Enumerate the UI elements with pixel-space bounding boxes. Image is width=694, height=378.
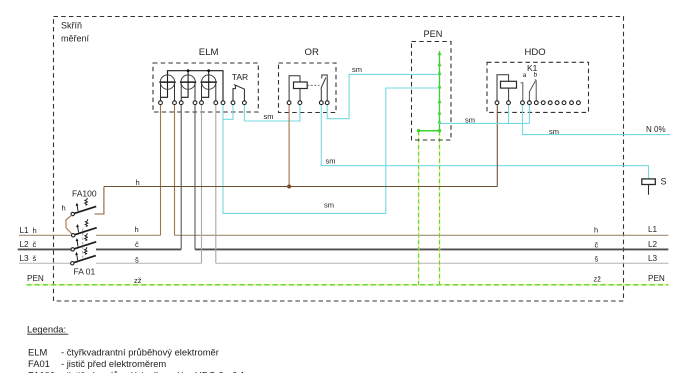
svg-text:L1: L1 — [20, 226, 30, 235]
ELM measuring element 1 — [159, 75, 175, 101]
svg-text:sm: sm — [465, 115, 475, 124]
breaker FA100 — [62, 187, 104, 234]
left wire color labels h c s — [33, 226, 37, 263]
wire OR t4 sm to PEN bus — [327, 74, 438, 118]
OR contact — [321, 75, 327, 101]
svg-text:FA01: FA01 — [28, 358, 50, 369]
svg-text:h: h — [33, 226, 37, 235]
cabinet frame Skrin mereni — [54, 17, 624, 302]
svg-text:Legenda:: Legenda: — [27, 324, 66, 335]
breaker FA01 pole 2 — [71, 233, 96, 251]
svg-text:h: h — [135, 225, 139, 234]
svg-text:sm: sm — [549, 127, 559, 136]
HDO relay K1 labels — [523, 63, 538, 79]
OR mechanical link — [307, 84, 319, 86]
power line L2 left segment — [18, 248, 71, 250]
HDO contact K1 — [521, 80, 537, 101]
svg-text:h: h — [136, 178, 140, 187]
OR relay coil — [289, 76, 307, 101]
FA100 input wire — [66, 215, 72, 234]
power line L3 left segment — [19, 262, 71, 264]
PEN riser wire 2 green-yellow dashed — [439, 131, 441, 284]
power line L2 right segment — [195, 248, 668, 250]
ELM block box — [153, 63, 258, 112]
svg-text:sm: sm — [324, 201, 334, 210]
wire ELM t4 L2 out black — [194, 105, 196, 250]
svg-text:š: š — [135, 255, 139, 264]
svg-text:č: č — [135, 240, 139, 249]
svg-text:- čtyřkvadrantní průběhový ele: - čtyřkvadrantní průběhový elektroměr — [61, 346, 219, 357]
power line L1 mid segment (FA01 to ELM) — [96, 234, 161, 236]
terminals OR — [287, 101, 329, 105]
wire TAR t1 link sm — [223, 105, 233, 120]
FA100 blade — [74, 206, 96, 213]
power line L3 right segment — [216, 262, 669, 264]
svg-text:sm: sm — [326, 157, 336, 166]
TAR contact — [232, 72, 248, 101]
junction h line OR t1 — [287, 185, 291, 189]
svg-text:- jistič před elektroměrem: - jistič před elektroměrem — [61, 358, 166, 369]
svg-text:č: č — [595, 240, 599, 249]
svg-text:N 0%: N 0% — [646, 125, 666, 134]
cabinet title — [61, 21, 90, 44]
power line L2 mid segment — [96, 248, 181, 250]
svg-text:a: a — [523, 72, 527, 79]
svg-text:h: h — [594, 225, 598, 234]
FA100 output wire — [95, 187, 104, 215]
PEN bus arrows — [438, 51, 442, 124]
svg-text:FA100: FA100 — [72, 189, 97, 199]
PEN line green-yellow horizontal — [27, 284, 669, 286]
svg-text:L3: L3 — [20, 254, 30, 263]
wire OR t1 brown — [288, 105, 290, 186]
PEN block box — [412, 42, 452, 141]
terminals ELM — [159, 101, 247, 105]
svg-text:měření: měření — [61, 34, 90, 44]
wire ELM t5 L3 in grey — [201, 105, 203, 263]
svg-text:L1: L1 — [648, 225, 658, 234]
svg-text:TAR: TAR — [232, 72, 248, 82]
svg-text:š: š — [595, 255, 599, 264]
svg-text:č: č — [33, 240, 37, 249]
svg-text:zž: zž — [594, 275, 602, 284]
breaker FA01 pole 3 — [71, 247, 96, 265]
left terminal labels L1 L2 L3 PEN — [20, 226, 44, 283]
wire ELM t6 L3 out grey — [215, 105, 217, 263]
svg-text:S: S — [661, 177, 667, 187]
svg-text:L2: L2 — [20, 240, 30, 249]
svg-text:ELM: ELM — [28, 346, 47, 357]
ELM voltage bus — [168, 71, 224, 101]
svg-text:FA100: FA100 — [28, 369, 55, 373]
ELM bus junction dots — [187, 69, 190, 72]
ELM measuring element 2 — [180, 75, 196, 101]
S probe — [642, 177, 667, 195]
svg-text:sm: sm — [352, 65, 362, 74]
HDO relay coil — [497, 75, 517, 101]
PEN green bus — [417, 52, 441, 133]
power line L1 left segment — [19, 234, 71, 236]
wire ELM t1 L1 in brown — [160, 105, 162, 236]
svg-text:- jistič obvodů ovládacího rel: - jistič obvodů ovládacího relé a HDO 2 … — [61, 369, 246, 373]
wire HDO coil t2 sm to PEN bus — [508, 105, 510, 124]
svg-text:Skříň: Skříň — [61, 21, 82, 31]
svg-text:PEN: PEN — [27, 274, 44, 283]
svg-text:OR: OR — [305, 47, 319, 58]
HDO block box — [487, 62, 589, 112]
control line h brown — [104, 186, 497, 188]
svg-text:L3: L3 — [648, 254, 658, 263]
svg-text:FA 01: FA 01 — [74, 267, 96, 277]
wire ELM t3 L2 in black — [180, 105, 182, 250]
legend — [27, 324, 246, 378]
power line L1 right segment — [175, 234, 669, 236]
FA100 hinge — [71, 212, 74, 215]
FA100 arrow — [76, 205, 79, 211]
breaker FA01 pole 1 — [72, 219, 97, 237]
right wire color labels — [594, 225, 602, 283]
OR block box — [279, 63, 337, 113]
svg-text:sm: sm — [264, 112, 274, 121]
wire TAR t2 to OR t2 sm — [244, 105, 300, 121]
wire ELM t2 L1 out brown — [174, 105, 176, 236]
terminals HDO — [495, 101, 580, 105]
right terminal labels L1 L2 L3 PEN — [648, 225, 665, 283]
ELM measuring element 3 — [201, 75, 217, 101]
FA01 mechanical link dashed — [82, 229, 84, 259]
svg-text:h: h — [62, 204, 66, 213]
svg-text:ELM: ELM — [199, 47, 219, 58]
svg-text:b: b — [534, 72, 538, 79]
wire OR t3 sm to S probe — [321, 105, 648, 179]
svg-text:HDO: HDO — [525, 47, 546, 58]
mid wire color labels after FA01 — [134, 225, 142, 285]
svg-text:L2: L2 — [648, 240, 658, 249]
FA100 trip hook — [85, 200, 88, 205]
svg-text:š: š — [33, 254, 37, 263]
sm labels — [264, 65, 560, 210]
wire HDO coil t1 brown — [496, 105, 498, 187]
power line L3 mid segment — [96, 262, 202, 264]
svg-text:zž: zž — [134, 276, 142, 285]
svg-text:PEN: PEN — [424, 29, 443, 39]
wire HDO K1a neutral out N 0% — [523, 105, 671, 135]
PEN riser wire 1 green-yellow dashed — [418, 131, 420, 284]
wire ELM t7 neutral sm to PEN bus — [223, 88, 439, 213]
svg-text:PEN: PEN — [648, 274, 665, 283]
